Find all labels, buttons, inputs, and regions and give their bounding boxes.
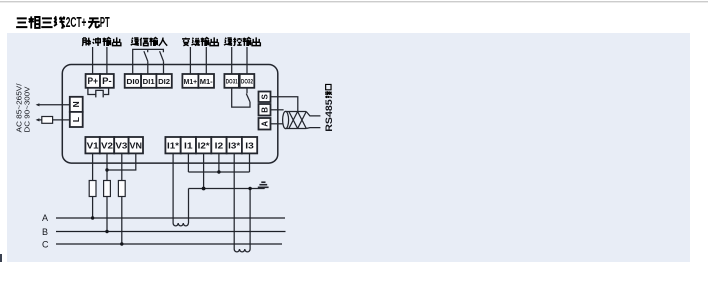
svg-text:PT: PT bbox=[100, 14, 110, 31]
wire DI1 lead bbox=[147, 61, 149, 74]
svg-text:C: C bbox=[42, 239, 49, 249]
svg-text:I3*: I3* bbox=[228, 142, 241, 151]
svg-text:I2*: I2* bbox=[198, 142, 211, 151]
terminal L bbox=[70, 112, 83, 127]
arrowhead L bbox=[36, 118, 40, 121]
node I2 common bbox=[217, 170, 220, 173]
svg-text:DO32: DO32 bbox=[241, 79, 253, 86]
wire M1- top lead bbox=[205, 47, 207, 74]
svg-text:N: N bbox=[71, 101, 81, 107]
junction dots bbox=[91, 168, 252, 245]
node V3-C bbox=[120, 242, 123, 245]
svg-text:DI1: DI1 bbox=[143, 77, 156, 86]
wire CT1 return bbox=[188, 189, 190, 224]
RS485 conductor exits bbox=[306, 112, 320, 129]
terminal V2 bbox=[100, 137, 114, 153]
label 遥信输入 (remote signal input) bbox=[131, 38, 167, 46]
svg-text:P+: P+ bbox=[88, 76, 99, 86]
wire I3* to CT2 bbox=[233, 153, 235, 249]
terminal N bbox=[70, 97, 83, 112]
RS485 cable sheath lines bbox=[286, 112, 307, 129]
svg-text:S: S bbox=[260, 93, 269, 99]
wire DO32 top lead bbox=[246, 47, 248, 74]
wire DI bracket with DI0 lead bbox=[133, 49, 164, 74]
svg-text:A: A bbox=[260, 121, 269, 127]
label 遥控输出 (remote control output) bbox=[224, 37, 260, 45]
terminal P- bbox=[100, 74, 114, 88]
svg-text:P-: P- bbox=[102, 76, 112, 86]
fuse F3 bbox=[118, 181, 125, 197]
wire A to cable bbox=[271, 123, 283, 125]
fuse F1 bbox=[89, 181, 96, 197]
wire V2 to fuse to phase B bbox=[106, 153, 108, 231]
phase labels A B C bbox=[42, 213, 49, 249]
node V1-A bbox=[91, 216, 94, 219]
phase line C bbox=[56, 243, 282, 245]
wire S to cable shield bbox=[271, 97, 298, 112]
svg-text:B: B bbox=[42, 227, 48, 237]
terminal S bbox=[259, 92, 271, 103]
left edge dark tick bbox=[0, 254, 2, 262]
fuse F2 bbox=[104, 181, 111, 197]
terminal DO31 bbox=[224, 74, 239, 88]
svg-text:RS485: RS485 bbox=[324, 99, 334, 132]
terminal DI2 bbox=[156, 74, 171, 88]
wire N supply lead bbox=[37, 104, 70, 106]
node I2* return bbox=[202, 187, 206, 191]
node VN-V2 bbox=[105, 168, 108, 171]
terminal I3* bbox=[227, 137, 242, 153]
svg-text:DI2: DI2 bbox=[158, 77, 170, 86]
wire VN jog to V2 bbox=[107, 153, 136, 170]
pulse output symbol bbox=[88, 88, 109, 98]
title 三相三线2CT+无PT bbox=[16, 16, 99, 28]
wire P- top lead bbox=[106, 47, 108, 74]
phase line B bbox=[56, 231, 286, 233]
svg-text:I3: I3 bbox=[245, 142, 254, 151]
svg-text:B: B bbox=[260, 107, 269, 113]
svg-text:I1*: I1* bbox=[167, 142, 180, 151]
svg-text:2CT+: 2CT+ bbox=[66, 14, 87, 31]
terminal M1+ bbox=[182, 74, 198, 88]
svg-text:DI0: DI0 bbox=[126, 77, 139, 86]
terminal I2 bbox=[211, 137, 226, 153]
wire common bus I1-I2-I3 bbox=[188, 171, 249, 173]
terminal V1 bbox=[85, 137, 99, 153]
svg-text:V2: V2 bbox=[101, 141, 113, 151]
blue diagram panel bbox=[7, 33, 690, 262]
ground symbol bbox=[258, 182, 269, 188]
svg-text:A: A bbox=[42, 213, 48, 223]
wire I1 to common bus bbox=[187, 153, 189, 172]
node V2-B bbox=[105, 230, 108, 233]
terminal B bbox=[259, 104, 271, 116]
node CT2 return bbox=[248, 187, 251, 190]
wire I2* lead bbox=[203, 153, 205, 188]
svg-text:I1: I1 bbox=[184, 142, 193, 151]
terminal V3 bbox=[114, 137, 128, 153]
terminal DO32 bbox=[240, 74, 255, 88]
terminal VN bbox=[129, 137, 143, 153]
switch blade DI2 bbox=[160, 51, 164, 61]
wire DI2 lead bbox=[163, 61, 165, 74]
terminal DI0 bbox=[125, 74, 141, 88]
wire B to cable bbox=[271, 109, 284, 111]
wire I3 lead bbox=[249, 153, 251, 172]
wire V3 to fuse to phase C bbox=[121, 153, 123, 244]
terminal A bbox=[259, 118, 271, 130]
wire L supply lead bbox=[37, 119, 70, 121]
CT1 secondary coil bbox=[173, 223, 188, 226]
RS485 cable end ellipse bbox=[283, 111, 289, 128]
svg-text:V1: V1 bbox=[87, 141, 99, 151]
meter outline U1 bbox=[62, 65, 277, 164]
svg-text:I2: I2 bbox=[215, 142, 224, 151]
svg-text:L: L bbox=[71, 117, 81, 122]
fuse F0 on L lead bbox=[42, 117, 53, 124]
wire CT return bus bbox=[189, 188, 265, 190]
terminal P+ bbox=[86, 74, 100, 88]
wire M1+ top lead bbox=[189, 47, 191, 74]
svg-text:M1+: M1+ bbox=[184, 77, 198, 86]
power supply rotated text AC 85~265V/ DC 90~300V bbox=[15, 82, 32, 132]
wire V1 to fuse to phase A bbox=[92, 153, 94, 218]
wire P+ top lead bbox=[92, 47, 94, 74]
switch blade DI1 bbox=[144, 51, 148, 61]
terminal I1* bbox=[165, 137, 180, 153]
wire I1* to CT1 bbox=[172, 153, 174, 223]
label 脉冲输出 (pulse output) bbox=[82, 37, 121, 46]
top gray rule bbox=[0, 1, 708, 2]
wire DO31 top lead bbox=[231, 47, 233, 74]
phase line A bbox=[56, 217, 285, 219]
terminal DI1 bbox=[141, 74, 156, 88]
arrowhead N bbox=[36, 103, 40, 106]
wire CT2 return bbox=[249, 189, 251, 250]
label 变送输出 (transducer output) bbox=[182, 37, 218, 45]
wire I2 lead bbox=[218, 153, 220, 172]
terminal M1- bbox=[198, 74, 214, 88]
terminal I2* bbox=[196, 137, 211, 153]
svg-text:DC 90~300V: DC 90~300V bbox=[23, 86, 32, 132]
svg-text:VN: VN bbox=[130, 141, 143, 151]
relay contact DO3 bbox=[232, 88, 250, 107]
svg-text:M1-: M1- bbox=[200, 77, 213, 86]
CT2 secondary coil bbox=[234, 249, 250, 252]
terminal I3 bbox=[242, 137, 257, 153]
RS485 twisted pair crossings bbox=[289, 112, 306, 129]
svg-text:DO31: DO31 bbox=[226, 79, 238, 86]
svg-text:V3: V3 bbox=[115, 141, 127, 151]
terminal I1 bbox=[181, 137, 196, 153]
